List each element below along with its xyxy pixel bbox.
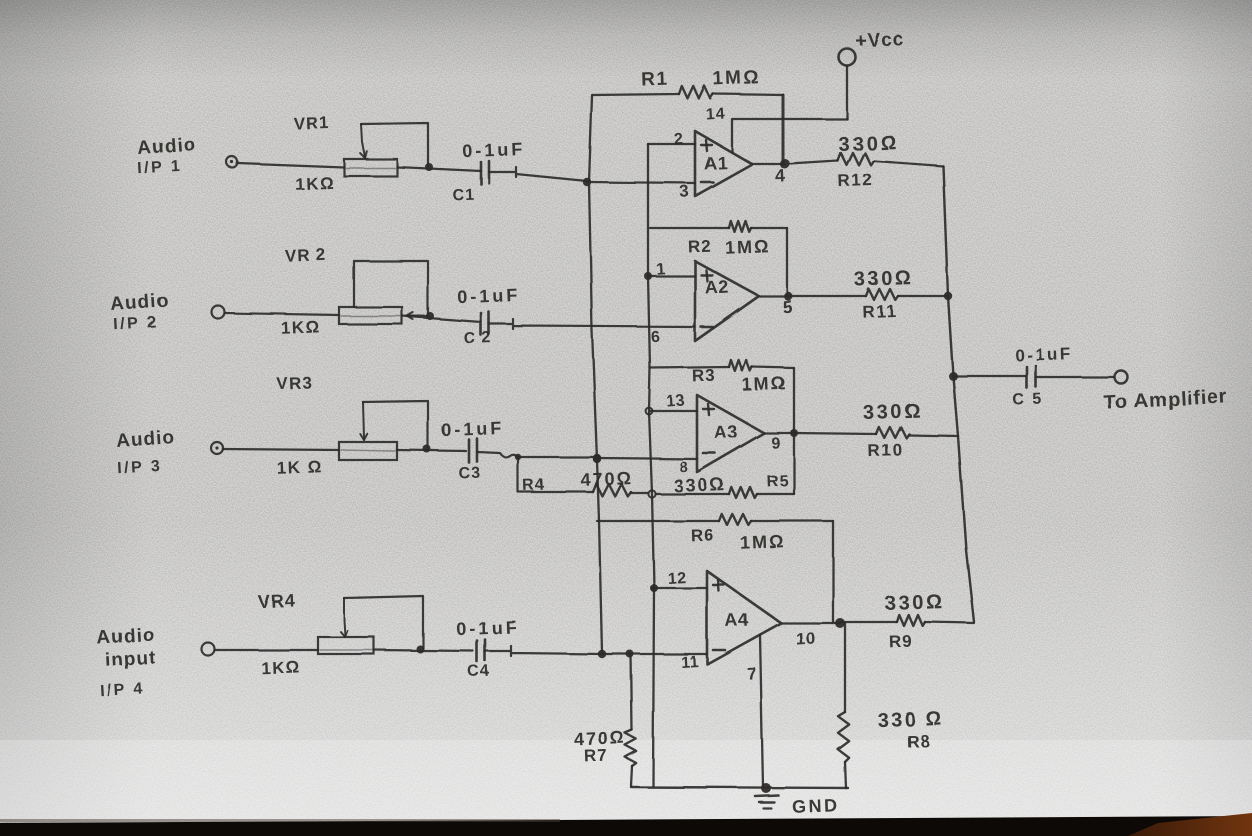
svg-text:C 2: C 2 <box>464 330 492 348</box>
svg-text:330Ω: 330Ω <box>854 267 914 291</box>
svg-text:10: 10 <box>795 628 816 648</box>
svg-text:R6: R6 <box>691 526 715 546</box>
svg-text:I/P 3: I/P 3 <box>117 458 163 477</box>
svg-text:Audio: Audio <box>96 624 156 648</box>
svg-text:1KΩ: 1KΩ <box>281 317 322 337</box>
svg-text:I/P 2: I/P 2 <box>113 314 159 333</box>
svg-text:R9: R9 <box>889 632 913 652</box>
svg-text:330Ω: 330Ω <box>838 132 899 156</box>
svg-text:2: 2 <box>674 131 684 148</box>
svg-text:1MΩ: 1MΩ <box>740 531 786 553</box>
svg-text:1MΩ: 1MΩ <box>725 236 771 258</box>
svg-text:C3: C3 <box>458 465 481 483</box>
svg-text:5: 5 <box>782 297 794 318</box>
svg-text:R12: R12 <box>838 170 874 190</box>
svg-text:330Ω: 330Ω <box>885 591 946 615</box>
svg-text:R8: R8 <box>907 732 931 752</box>
svg-text:A2: A2 <box>704 277 729 298</box>
svg-text:Audio: Audio <box>116 427 176 452</box>
svg-text:GND: GND <box>792 795 840 817</box>
svg-text:Audio: Audio <box>137 134 197 159</box>
svg-text:1K Ω: 1K Ω <box>276 457 323 478</box>
svg-text:4: 4 <box>775 166 787 187</box>
svg-text:7: 7 <box>746 664 757 683</box>
svg-text:0-1uF: 0-1uF <box>456 617 520 639</box>
svg-text:+Vcc: +Vcc <box>855 29 905 52</box>
svg-text:R7: R7 <box>584 746 608 766</box>
svg-text:0-1uF: 0-1uF <box>457 285 521 307</box>
svg-text:R11: R11 <box>862 301 897 321</box>
svg-text:1MΩ: 1MΩ <box>713 67 761 90</box>
svg-text:330 Ω: 330 Ω <box>877 708 944 732</box>
svg-text:3: 3 <box>679 182 690 201</box>
svg-text:I/P 1: I/P 1 <box>137 158 183 177</box>
svg-text:12: 12 <box>667 570 687 588</box>
svg-text:C 5: C 5 <box>1012 390 1043 408</box>
svg-text:I/P 4: I/P 4 <box>100 681 146 700</box>
svg-text:470Ω: 470Ω <box>580 468 633 490</box>
svg-text:0-1uF: 0-1uF <box>441 418 505 440</box>
svg-text:R5: R5 <box>766 473 789 491</box>
svg-text:9: 9 <box>771 435 781 452</box>
svg-text:VR3: VR3 <box>276 373 313 393</box>
svg-text:A3: A3 <box>713 422 738 443</box>
svg-text:6: 6 <box>651 329 661 346</box>
svg-text:330Ω: 330Ω <box>863 400 924 424</box>
svg-text:A4: A4 <box>724 610 749 631</box>
svg-text:A1: A1 <box>703 153 728 174</box>
svg-text:330Ω: 330Ω <box>673 474 726 496</box>
svg-text:R10: R10 <box>868 440 904 460</box>
svg-text:1MΩ: 1MΩ <box>742 373 788 395</box>
svg-text:C1: C1 <box>452 187 475 205</box>
svg-text:0-1uF: 0-1uF <box>1015 344 1073 365</box>
svg-text:VR1: VR1 <box>293 113 330 133</box>
svg-text:8: 8 <box>679 459 689 476</box>
svg-text:14: 14 <box>705 105 726 123</box>
svg-text:input: input <box>104 648 156 672</box>
svg-text:13: 13 <box>666 393 686 411</box>
svg-text:1KΩ: 1KΩ <box>261 657 302 677</box>
svg-text:R4: R4 <box>522 477 545 495</box>
svg-text:VR4: VR4 <box>257 590 296 611</box>
svg-text:C4: C4 <box>467 663 490 681</box>
svg-text:0-1uF: 0-1uF <box>462 139 526 161</box>
svg-text:1: 1 <box>656 261 666 278</box>
svg-text:11: 11 <box>680 654 699 672</box>
svg-text:1KΩ: 1KΩ <box>295 173 336 193</box>
svg-text:R1: R1 <box>641 69 669 91</box>
svg-text:R2: R2 <box>688 237 712 257</box>
svg-text:R3: R3 <box>692 366 716 386</box>
svg-text:VR 2: VR 2 <box>285 245 327 265</box>
svg-text:Audio: Audio <box>110 290 170 315</box>
